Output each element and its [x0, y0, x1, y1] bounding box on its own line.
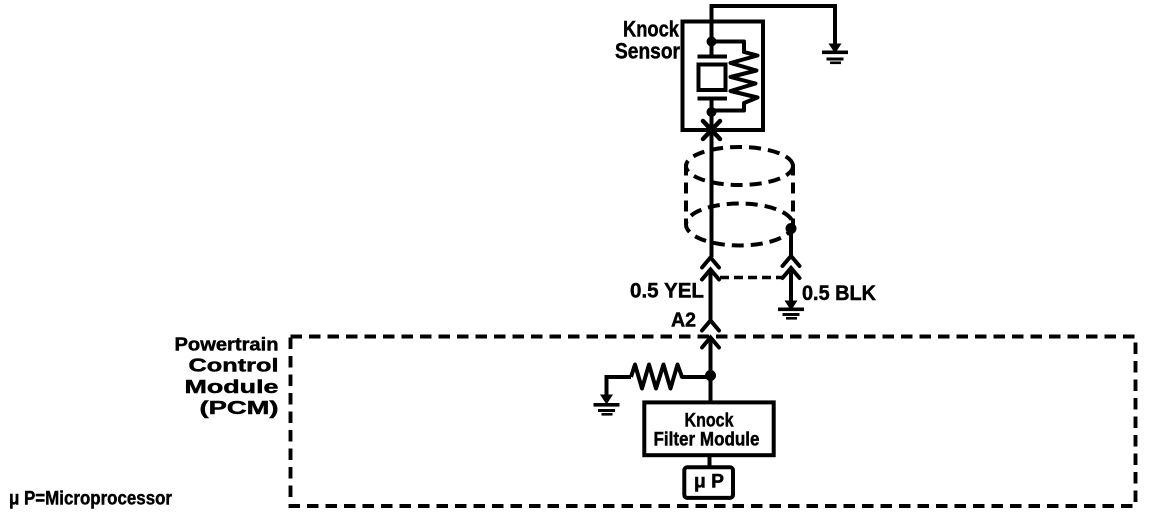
wire: knock filter module to microprocessor	[708, 455, 712, 468]
shielded cable: bottom ellipse	[686, 204, 793, 246]
microprocessor box U1	[684, 467, 733, 498]
svg-text:A2: A2	[671, 310, 696, 332]
junction dot: sensor bottom node	[707, 107, 717, 117]
wire: internal top node	[710, 42, 714, 58]
svg-text:Knock: Knock	[685, 411, 734, 432]
wire: sensor output through case to splice	[710, 112, 714, 257]
piezo element: bottom plate	[698, 97, 728, 101]
svg-text:μ P=Microprocessor: μ P=Microprocessor	[9, 489, 173, 510]
svg-text:Sensor: Sensor	[615, 39, 680, 64]
knock sensor box	[683, 22, 764, 131]
wire: 0.5 BLK to ground	[789, 269, 793, 303]
PCM dashed border	[291, 337, 1136, 507]
label: Powertrain Control Module (PCM)	[175, 335, 279, 419]
ground G1 (knock sensor case ground)	[822, 44, 848, 65]
ground G3 (bias resistor ground)	[594, 395, 620, 416]
shielded cable: top ellipse	[686, 147, 793, 185]
knock filter module box	[644, 402, 773, 455]
wire: shield drain lead	[789, 229, 793, 256]
svg-text:(PCM): (PCM)	[200, 398, 279, 418]
svg-text:Powertrain: Powertrain	[175, 335, 279, 355]
svg-text:Filter Module: Filter Module	[654, 430, 760, 451]
piezo element: crystal square	[699, 65, 726, 91]
junction dot: sensor top node	[707, 37, 717, 47]
connector: PCM pin A2 lower chevron	[702, 338, 719, 348]
connector: PCM pin A2 upper chevron	[702, 321, 719, 331]
resistor R1 (sensor internal shunt)	[712, 42, 758, 111]
splice X (sensor connector)	[703, 121, 720, 139]
wire: knock sensor signal lead to case ground (top run)	[712, 6, 836, 45]
wire: piezo bottom lead	[710, 99, 714, 113]
connector C1: black wire lower chevron	[783, 268, 800, 278]
piezo element: top plate	[698, 55, 728, 59]
resistor R2 (bias resistor)	[631, 365, 711, 389]
connector C1: black wire upper chevron	[783, 256, 800, 266]
connector C1: dashed tie line	[720, 276, 782, 280]
shielded cable: right side	[791, 165, 795, 225]
svg-text:0.5 YEL: 0.5 YEL	[630, 280, 704, 303]
ground G2 (black wire ground)	[778, 301, 804, 320]
shielded cable: left side	[684, 165, 688, 225]
connector C1: yellow wire upper chevron	[702, 258, 719, 268]
wire: bias resistor to ground	[607, 377, 632, 396]
label: Knock Filter Module	[654, 411, 760, 451]
svg-text:μ P: μ P	[694, 472, 724, 493]
junction dot: shield drain node	[786, 223, 797, 234]
junction dot: bias node	[705, 370, 716, 381]
svg-text:Module: Module	[185, 377, 279, 397]
label: Knock Sensor	[615, 17, 680, 64]
svg-text:Control: Control	[189, 356, 279, 376]
wire: 0.5 YEL to PCM pin A2	[709, 270, 713, 320]
svg-text:0.5 BLK: 0.5 BLK	[802, 282, 876, 305]
wire: A2 to knock filter module	[709, 338, 713, 401]
connector C1: yellow wire lower chevron	[702, 270, 719, 280]
